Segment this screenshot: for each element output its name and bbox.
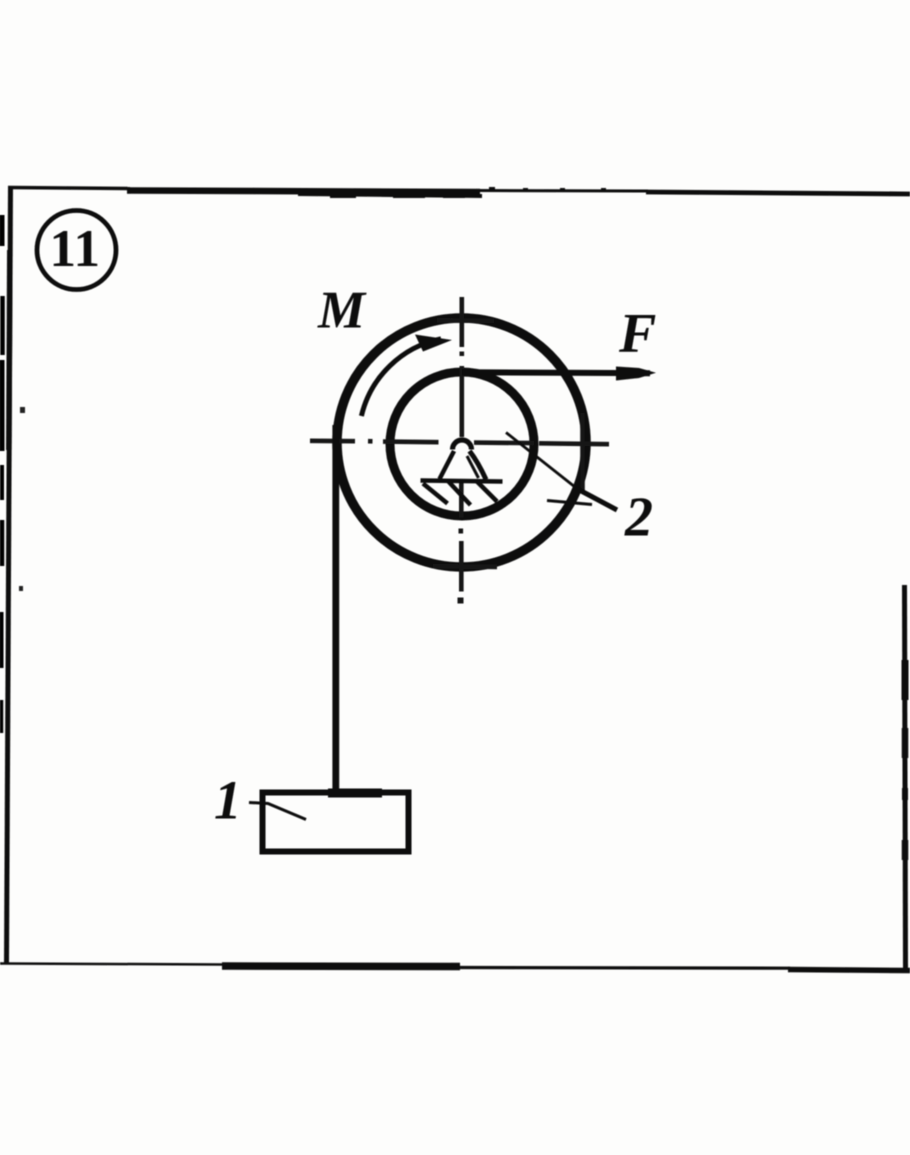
svg-text:1: 1 <box>74 220 101 278</box>
svg-text:1: 1 <box>50 220 77 278</box>
svg-text:2: 2 <box>624 487 653 549</box>
svg-text:M: M <box>317 282 367 340</box>
svg-text:1: 1 <box>214 770 242 831</box>
svg-text:F: F <box>618 303 656 365</box>
